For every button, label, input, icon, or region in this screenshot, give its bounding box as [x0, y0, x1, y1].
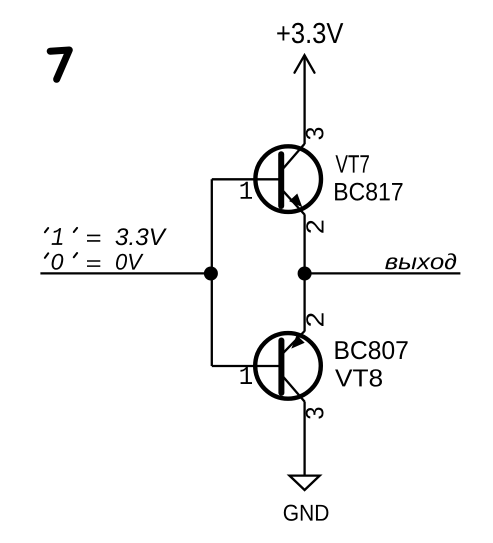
wire: VT8 base	[212, 365, 281, 367]
label BC807	[336, 341, 408, 359]
wire: input	[40, 272, 211, 274]
annotation: logic level '1' = 3.3V	[45, 228, 167, 245]
label VT8	[335, 369, 382, 386]
annotation: logic level '0' = 0V	[45, 253, 144, 270]
power net label +3.3V	[277, 23, 343, 44]
pin 2 label VT7	[306, 221, 323, 233]
junction: output node	[298, 267, 312, 281]
transistor VT8 (PNP BC807)	[255, 331, 321, 402]
wire: output	[305, 272, 461, 274]
figure number 7	[50, 50, 69, 79]
label BC817	[335, 183, 402, 201]
net label выход	[385, 253, 456, 269]
ground symbol	[290, 476, 320, 490]
wire: +3.3V to VT7 collector	[303, 55, 305, 144]
pin 3 label VT7	[306, 128, 324, 140]
wire: base bus vertical	[211, 179, 213, 366]
pin 3 label VT8	[306, 408, 324, 419]
pin 1 label VT8	[241, 367, 253, 384]
pin 2 label VT8	[306, 313, 323, 326]
wire: VT7 base	[212, 178, 281, 180]
wire: VT8 collector to ground	[303, 402, 305, 475]
pin 1 label VT7	[241, 182, 253, 199]
label VT7	[336, 155, 369, 172]
wire: VT7 emitter to output node	[303, 214, 305, 331]
transistor VT7 (NPN BC817)	[255, 144, 321, 215]
label GND	[284, 505, 329, 521]
junction: input node	[204, 267, 218, 281]
power arrow symbol +3.3V	[295, 55, 315, 72]
